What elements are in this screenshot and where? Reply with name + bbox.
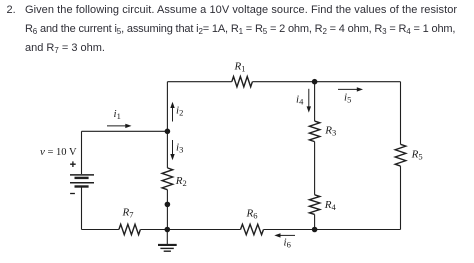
- wire middle column mid: [314, 142, 316, 195]
- wire middle column upper: [314, 82, 316, 121]
- label plus terminal: [70, 161, 76, 167]
- wire bottom segment a: [82, 229, 119, 231]
- svg-text:v = 10 V: v = 10 V: [40, 146, 77, 158]
- wire right column lower: [400, 166, 402, 229]
- current arrow i4: [308, 89, 310, 107]
- wire bottom segment b: [140, 229, 240, 231]
- svg-text:R3: R3: [324, 125, 336, 138]
- resistor R7: [119, 224, 140, 234]
- svg-text:R6: R6: [246, 208, 258, 221]
- wire top right segment: [252, 81, 400, 83]
- svg-text:R5: R5: [411, 149, 423, 162]
- node dot bottom junction: [312, 227, 318, 233]
- current arrow i2: [172, 108, 174, 122]
- svg-text:i3: i3: [176, 142, 183, 155]
- current arrow i6: [280, 234, 296, 236]
- svg-text:R2: R2: [175, 175, 187, 188]
- resistor R4: [309, 195, 319, 215]
- svg-text:R7: R7: [122, 207, 134, 220]
- voltage source battery: [70, 175, 94, 187]
- wire left column lower: [81, 187, 83, 229]
- ground: [158, 245, 177, 251]
- wire top left segment: [167, 81, 231, 83]
- svg-text:i5: i5: [344, 92, 351, 105]
- wire R2 branch lower: [166, 190, 168, 230]
- node dot ground junction: [165, 227, 171, 233]
- wire bottom segment c: [264, 229, 401, 231]
- wire right column upper: [400, 82, 402, 145]
- current arrow i3: [172, 140, 174, 154]
- label minus terminal: [70, 193, 75, 195]
- resistor R1: [232, 77, 253, 87]
- resistor R6: [241, 224, 264, 234]
- current arrow i1: [107, 125, 126, 127]
- svg-text:i6: i6: [284, 237, 291, 250]
- svg-text:i4: i4: [296, 94, 304, 107]
- svg-text:R1: R1: [234, 61, 246, 74]
- node dot below R2: [165, 202, 171, 208]
- wire left column upper: [81, 131, 83, 174]
- wire source top: [82, 130, 168, 132]
- ground stub: [166, 230, 168, 245]
- wire R2 branch upper: [166, 131, 168, 168]
- wire middle column lower: [314, 215, 316, 230]
- node dot top junction: [312, 79, 318, 85]
- svg-text:R4: R4: [324, 199, 337, 212]
- problem text line 3: [25, 42, 105, 54]
- node dot left: [165, 129, 171, 135]
- resistor R3: [309, 121, 319, 142]
- resistor R5: [395, 144, 406, 166]
- wire left riser: [166, 82, 168, 132]
- svg-text:i1: i1: [114, 108, 121, 121]
- problem text line 1: [7, 4, 16, 16]
- svg-text:i2: i2: [176, 105, 183, 118]
- problem text line 2: [25, 23, 455, 35]
- current arrow i5: [338, 88, 358, 90]
- resistor R2: [162, 168, 173, 190]
